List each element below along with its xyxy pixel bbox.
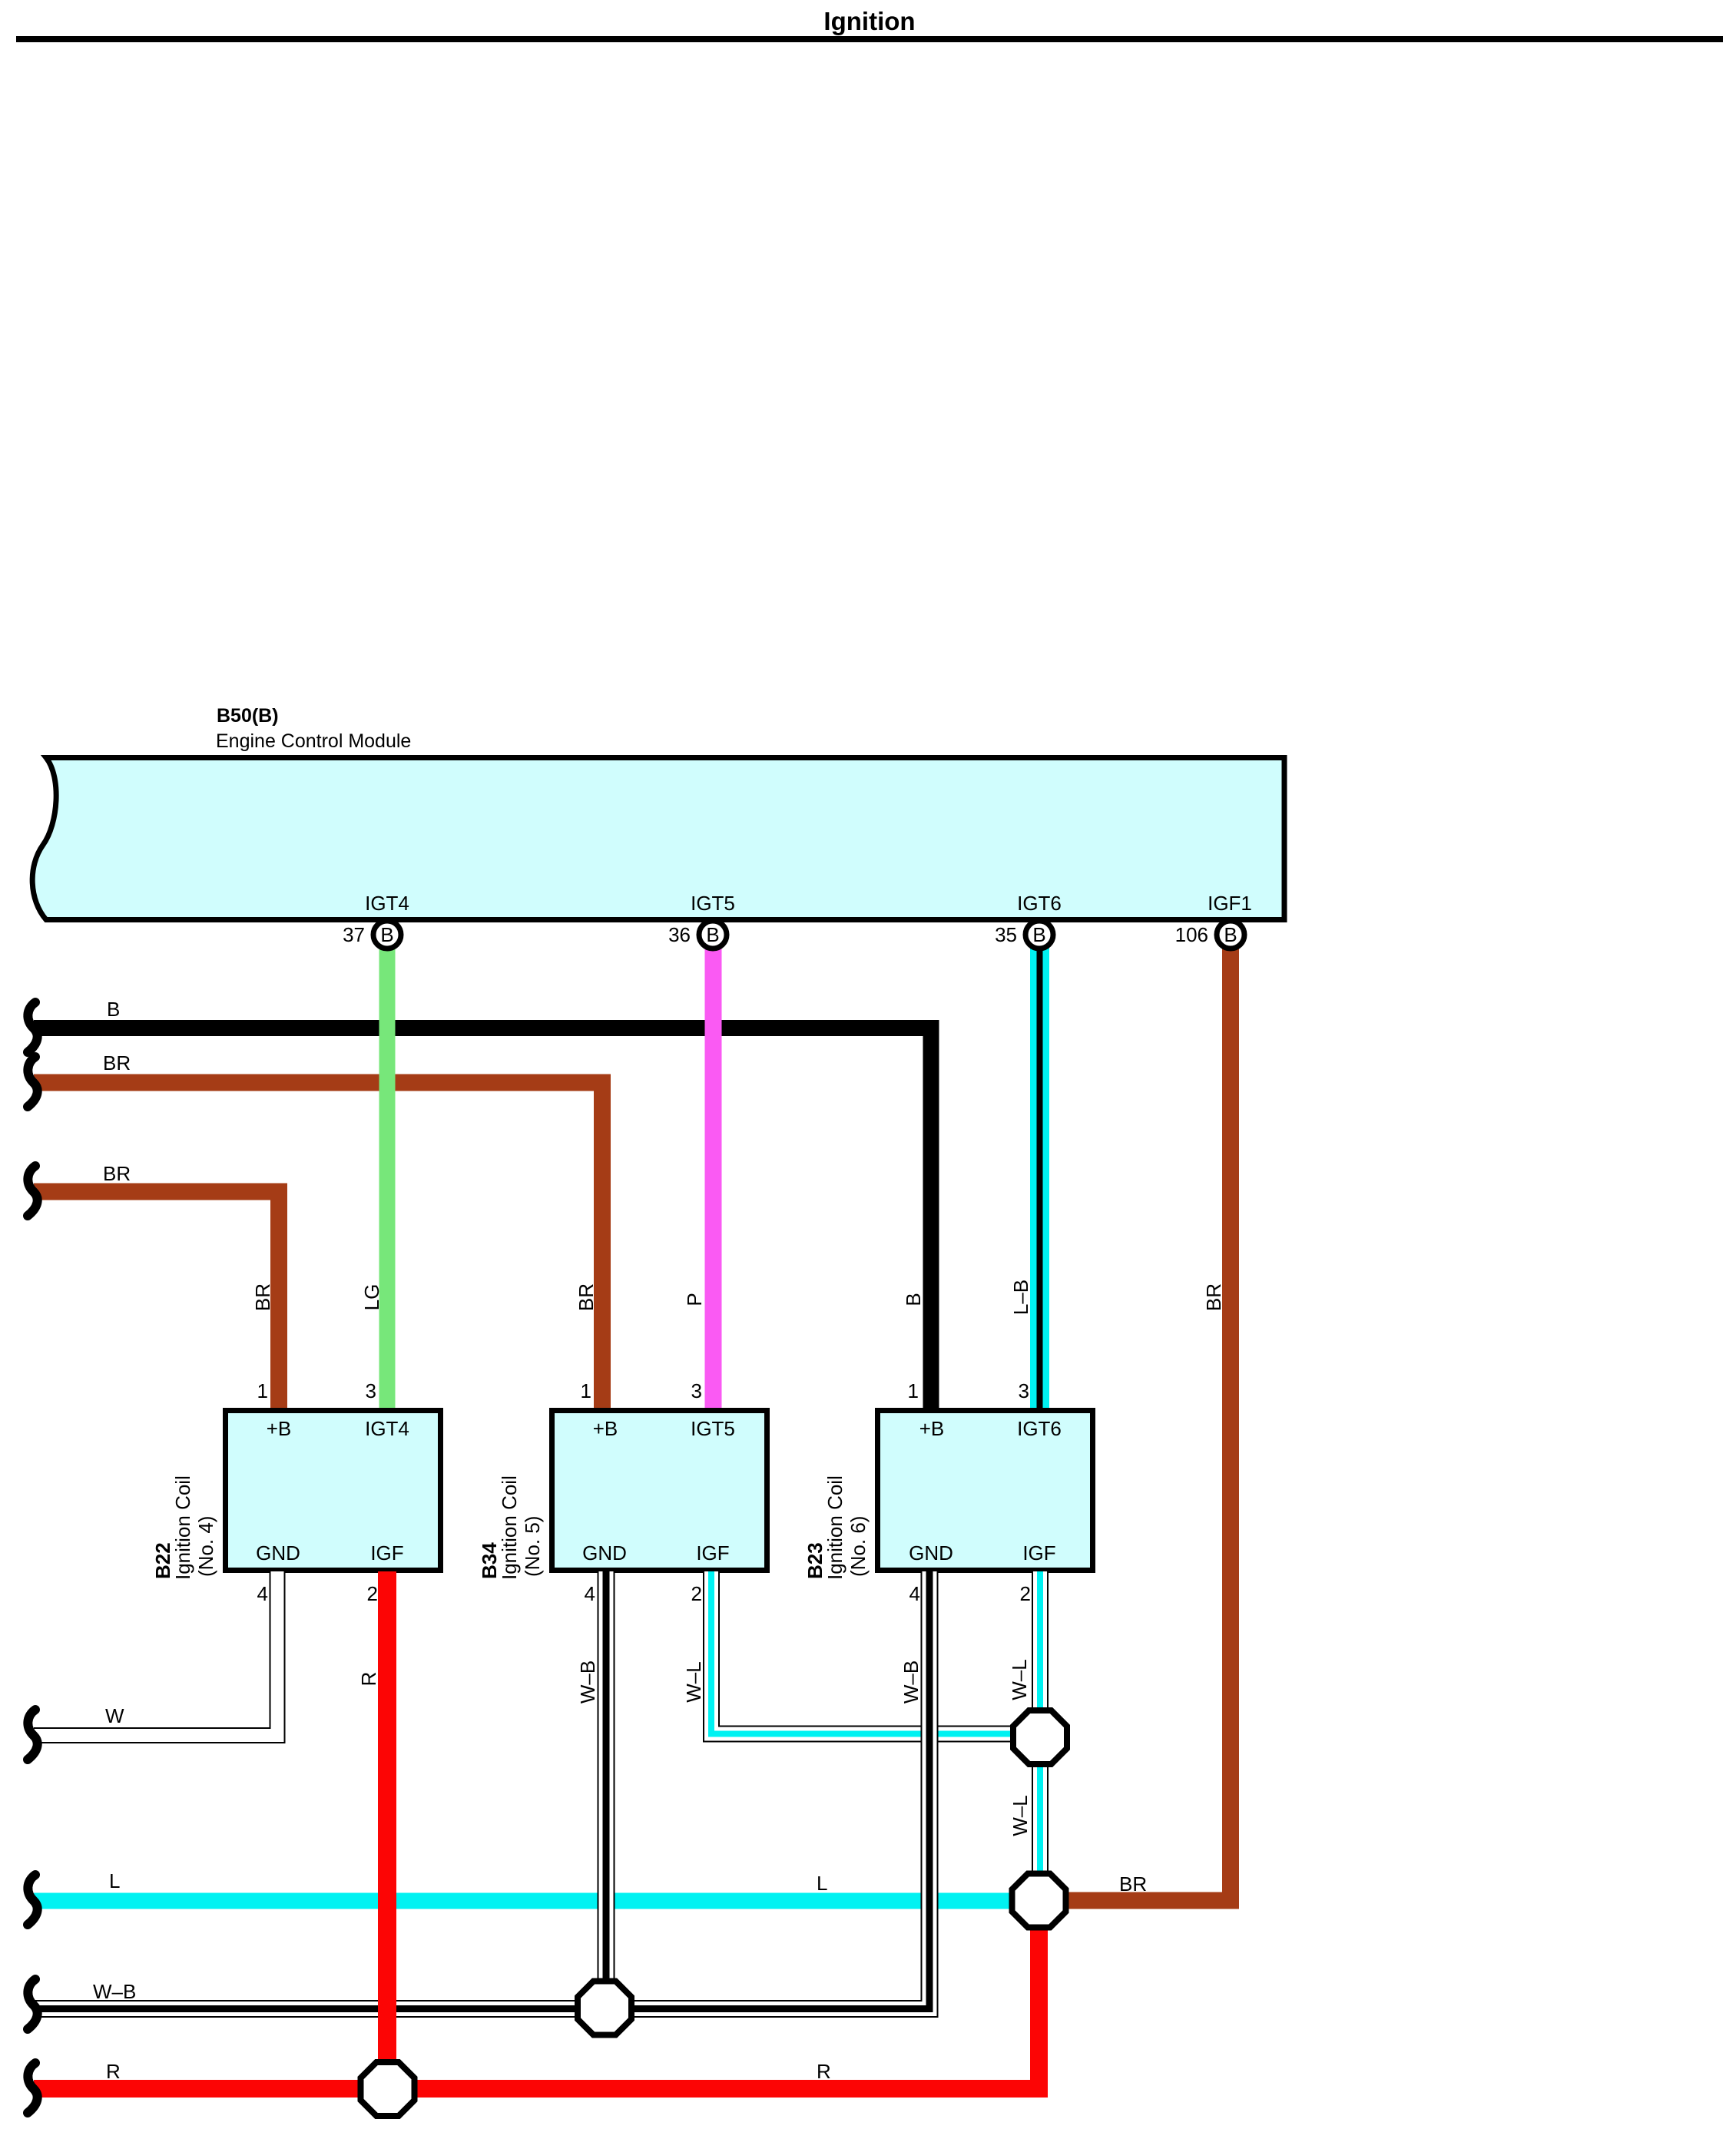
svg-text:3: 3 <box>366 1379 376 1402</box>
svg-text:+B: +B <box>593 1417 618 1440</box>
svg-text:Ignition Coil: Ignition Coil <box>171 1475 194 1580</box>
svg-text:4: 4 <box>257 1582 268 1605</box>
svg-text:B: B <box>1224 923 1237 946</box>
svg-text:(No. 5): (No. 5) <box>521 1516 544 1577</box>
svg-text:IGT6: IGT6 <box>1017 892 1062 915</box>
svg-text:IGF1: IGF1 <box>1208 892 1252 915</box>
svg-text:GND: GND <box>582 1541 627 1564</box>
svg-text:35: 35 <box>995 923 1017 946</box>
svg-text:R: R <box>106 2060 121 2083</box>
svg-text:106: 106 <box>1175 923 1208 946</box>
svg-text:+B: +B <box>267 1417 292 1440</box>
svg-text:BR: BR <box>1202 1283 1225 1311</box>
svg-text:IGT5: IGT5 <box>691 892 735 915</box>
svg-text:W–B: W–B <box>93 1980 136 2003</box>
svg-text:36: 36 <box>668 923 691 946</box>
svg-text:W–L: W–L <box>1009 1795 1032 1836</box>
svg-text:L–B: L–B <box>1009 1280 1032 1315</box>
svg-text:IGF: IGF <box>1022 1541 1055 1564</box>
svg-text:Ignition: Ignition <box>823 7 915 35</box>
svg-text:W: W <box>105 1704 124 1727</box>
svg-text:IGT4: IGT4 <box>365 892 409 915</box>
svg-text:W–L: W–L <box>1008 1659 1031 1700</box>
svg-text:IGF: IGF <box>370 1541 403 1564</box>
svg-text:IGT6: IGT6 <box>1017 1417 1062 1440</box>
svg-text:B: B <box>107 998 120 1021</box>
svg-text:1: 1 <box>908 1379 919 1402</box>
svg-text:BR: BR <box>575 1283 598 1311</box>
svg-text:BR: BR <box>103 1162 131 1185</box>
svg-text:R: R <box>817 2060 831 2083</box>
svg-text:1: 1 <box>257 1379 268 1402</box>
svg-text:W–L: W–L <box>682 1661 705 1702</box>
svg-text:4: 4 <box>585 1582 595 1605</box>
svg-text:R: R <box>357 1672 380 1687</box>
svg-text:4: 4 <box>909 1582 920 1605</box>
svg-text:LG: LG <box>360 1284 383 1311</box>
svg-text:GND: GND <box>256 1541 300 1564</box>
svg-text:L: L <box>817 1872 827 1895</box>
svg-text:B: B <box>1032 923 1045 946</box>
svg-text:3: 3 <box>691 1379 702 1402</box>
svg-text:GND: GND <box>909 1541 953 1564</box>
svg-text:W–B: W–B <box>899 1660 923 1704</box>
svg-text:37: 37 <box>343 923 365 946</box>
svg-text:IGT5: IGT5 <box>691 1417 735 1440</box>
svg-text:+B: +B <box>919 1417 945 1440</box>
svg-text:1: 1 <box>581 1379 591 1402</box>
svg-text:(No. 4): (No. 4) <box>194 1516 217 1577</box>
svg-text:P: P <box>683 1293 706 1306</box>
svg-text:B: B <box>380 923 393 946</box>
svg-text:3: 3 <box>1019 1379 1029 1402</box>
svg-text:B: B <box>902 1293 925 1306</box>
svg-text:Ignition Coil: Ignition Coil <box>823 1475 846 1580</box>
svg-text:B: B <box>706 923 719 946</box>
svg-text:Ignition Coil: Ignition Coil <box>498 1475 521 1580</box>
svg-text:2: 2 <box>367 1582 378 1605</box>
svg-text:B50(B): B50(B) <box>217 705 279 727</box>
svg-text:IGF: IGF <box>696 1541 729 1564</box>
svg-text:BR: BR <box>103 1051 131 1074</box>
svg-text:(No. 6): (No. 6) <box>846 1516 870 1577</box>
svg-text:BR: BR <box>251 1283 274 1311</box>
svg-text:2: 2 <box>691 1582 702 1605</box>
svg-text:Engine Control Module: Engine Control Module <box>216 730 411 752</box>
svg-text:IGT4: IGT4 <box>365 1417 409 1440</box>
svg-text:BR: BR <box>1119 1872 1147 1896</box>
svg-text:W–B: W–B <box>576 1660 599 1704</box>
svg-text:2: 2 <box>1020 1582 1031 1605</box>
svg-text:L: L <box>109 1869 120 1892</box>
